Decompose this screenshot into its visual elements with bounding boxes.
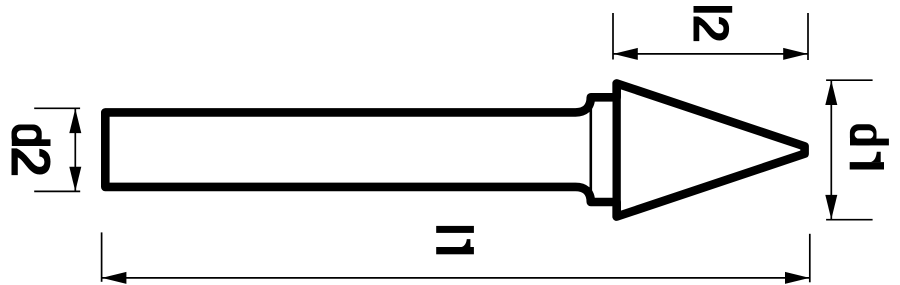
cone base face line — [613, 83, 621, 216]
dimension l1 left extension line — [101, 232, 103, 281]
svg-text:2: 2 — [683, 15, 740, 43]
dimension l1 right arrow — [785, 272, 810, 284]
label l1 : glyph l — [436, 226, 474, 233]
dimension l2 left extension line — [612, 13, 614, 60]
dimension d1 bottom extension tick — [826, 219, 873, 221]
dimension l2 line — [613, 53, 807, 55]
label d1 : glyph d stem — [850, 139, 889, 146]
label l2 : glyph l — [694, 6, 733, 13]
dimension d2 bottom extension tick — [34, 190, 80, 192]
collar edge line — [589, 97, 592, 202]
label d2 : glyph d bowl hole — [17, 130, 37, 139]
dimension l1 line — [102, 277, 810, 279]
dimension d2 line — [74, 109, 76, 191]
dimension d1 top extension tick — [826, 79, 873, 81]
dimension l2 left arrow — [613, 48, 638, 60]
label d1 : glyph 1 stem — [850, 162, 884, 169]
label d2 : glyph d bowl — [12, 125, 42, 147]
dimension l1 right extension line — [809, 234, 811, 282]
dimension d2 down arrow — [69, 167, 81, 192]
svg-text:2: 2 — [0, 147, 62, 178]
dimension d2 top extension tick — [34, 107, 80, 109]
burr body outline (shank, neck fillet, collar, cone) — [105, 83, 804, 216]
dimension d1 up arrow — [825, 81, 837, 106]
dimension l1 left arrow — [102, 272, 127, 284]
label d1 : glyph d bowl hole — [855, 130, 874, 139]
dimension d1 line — [830, 81, 832, 219]
label d2 : glyph d stem — [12, 139, 51, 146]
label l1 : glyph 1 stem — [436, 247, 474, 254]
dimension l2 right extension line — [807, 13, 809, 60]
label d1 : glyph 1 flag — [871, 152, 881, 162]
label d1 : glyph d bowl — [850, 124, 877, 145]
dimension d2 up arrow — [69, 109, 81, 134]
dimension d1 down arrow — [825, 195, 837, 220]
dimension l2 right arrow — [783, 48, 808, 60]
label l1 : glyph 1 flag — [462, 239, 471, 247]
